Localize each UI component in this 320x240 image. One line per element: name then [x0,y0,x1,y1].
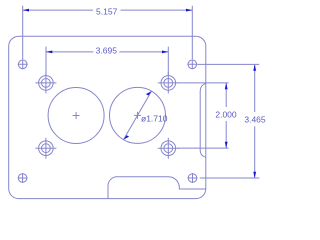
dim 2.000 line [225,83,227,148]
svg-text:ø1.710: ø1.710 [141,113,168,123]
arrow diameter leader bottom-left [124,135,130,139]
arrow 2.000 top [225,83,228,89]
arrow 3.465 top [253,64,256,70]
dim 2.000 extension lines [178,83,229,148]
diameter leader line [124,91,152,139]
right edge groove [200,83,206,157]
big circle right [110,87,166,143]
arrow 3.695 right [162,51,168,54]
svg-text:3.695: 3.695 [96,45,118,55]
svg-text:5.157: 5.157 [96,7,118,17]
arrow 5.157 left [23,9,29,12]
arrow diameter leader top-right [146,91,152,95]
small hole A top-left [18,59,28,69]
arrow 3.465 bottom [253,172,256,178]
arrow 2.000 bottom [225,142,228,148]
svg-text:2.000: 2.000 [215,109,237,119]
dim 3.695 extension lines [46,47,168,75]
small hole C bottom-left [18,173,28,183]
double hole G lower-left [35,138,56,159]
plate outline [9,36,206,198]
dim 5.157 extension lines [23,6,193,59]
small hole D bottom-right [188,173,198,183]
small hole B top-right [187,59,197,69]
dim 5.157 line [23,9,193,11]
dim 3.465 line [254,65,256,178]
double hole H lower-right [158,138,179,159]
arrow 3.695 left [46,51,52,54]
arrow 5.157 right [186,9,192,12]
big circle left [48,88,104,144]
double hole E upper-left [35,72,56,93]
bottom step ledge [108,177,206,199]
dim 3.695 line [46,51,168,53]
svg-text:3.465: 3.465 [244,115,266,125]
double hole F upper-right [158,72,179,93]
dim 3.465 extension lines [198,64,260,178]
